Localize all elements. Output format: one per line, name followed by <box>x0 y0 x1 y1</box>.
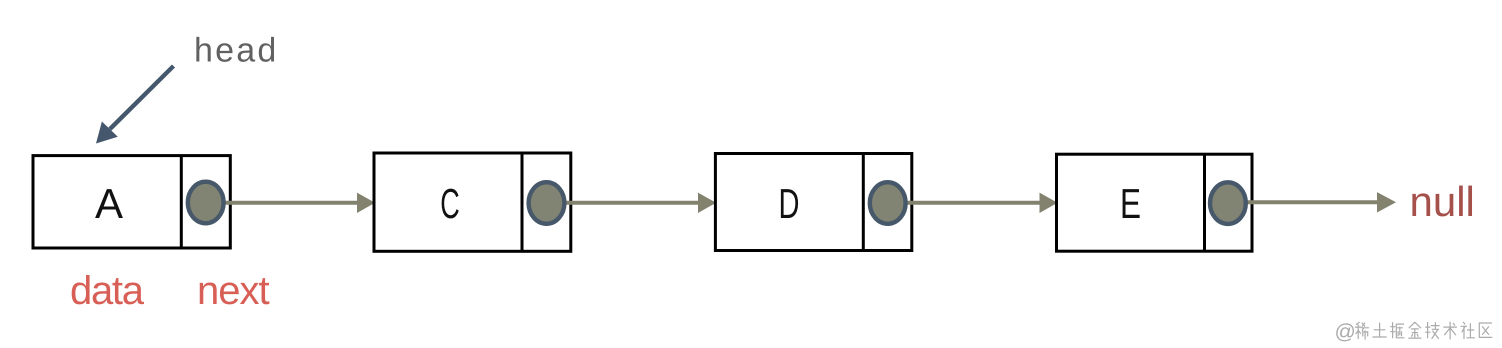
node D next pointer dot <box>870 182 906 224</box>
node C box <box>374 153 571 251</box>
node E box <box>1057 154 1253 251</box>
node D box <box>715 154 911 251</box>
head pointer arrow <box>96 66 174 144</box>
svg-text:null: null <box>1410 178 1475 225</box>
node C next pointer dot <box>529 182 565 224</box>
watermark "@稀土掘金技术社区" <box>1335 321 1492 344</box>
svg-text:E: E <box>1120 180 1141 227</box>
node A next pointer dot <box>188 182 224 224</box>
svg-text:C: C <box>440 180 460 227</box>
svg-text:head: head <box>194 32 278 70</box>
node A box <box>33 156 230 248</box>
node E next pointer dot <box>1210 182 1246 224</box>
wire: arrow from node E next pointer to null <box>1228 192 1396 212</box>
wire: arrow from node A next pointer to node C <box>206 193 375 213</box>
svg-text:D: D <box>779 180 800 227</box>
svg-text:@: @ <box>1335 321 1356 344</box>
wire: arrow from node D next pointer to node E <box>888 193 1058 213</box>
svg-text:next: next <box>197 269 269 313</box>
wire: arrow from node C next pointer to node D <box>547 193 716 213</box>
svg-text:data: data <box>70 269 145 313</box>
svg-text:A: A <box>95 180 123 227</box>
